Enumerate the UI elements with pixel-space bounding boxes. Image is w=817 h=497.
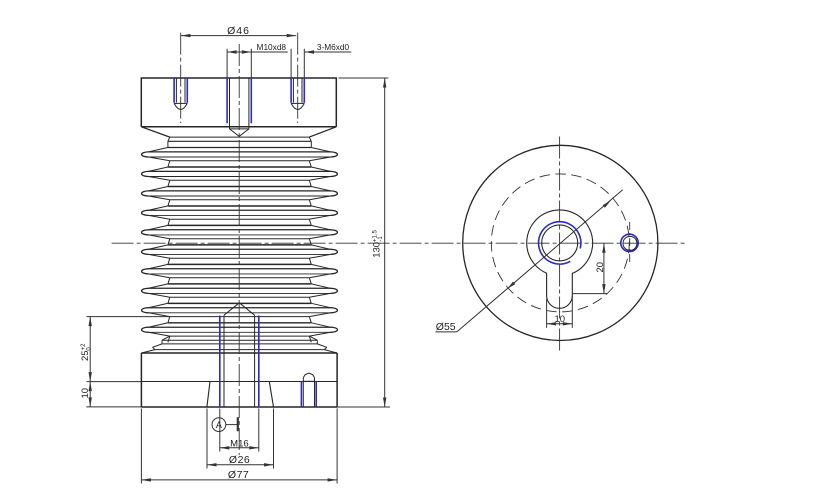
M16 inner circle [542,225,578,261]
insulator top cap outline [141,78,336,127]
svg-text:M16: M16 [230,438,248,449]
dimension M10 depth 8 [227,51,288,53]
shed fin 6 [149,245,168,249]
M16 thread arc blue [539,222,581,264]
M16 thread lines [219,316,221,408]
tapped hole 3-M6 right [290,78,292,103]
shed fin 10 [149,323,168,327]
extension line base bottom right [337,406,390,408]
shed fin 4 [149,206,168,210]
shed fin 3 [149,187,168,191]
dimension 10 slot [546,299,548,328]
tapped hole 3-M6 left [173,78,175,103]
keyhole boss outline [527,210,593,308]
svg-text:Ø77: Ø77 [228,469,249,481]
shed fin 8 [149,284,168,288]
side pin hole [300,381,302,407]
shed fin 5 [149,225,168,229]
Ø55 leader and text [457,190,623,332]
centerline small hole [629,222,631,263]
tapped hole M10 center [226,78,228,123]
svg-text:Ø26: Ø26 [229,454,250,466]
bottom ridge transition [162,336,170,340]
svg-text:Ø55: Ø55 [436,321,456,333]
base cylinder outline [141,352,337,354]
shed fin 2 [149,167,168,171]
outer circle Ø77 top view [463,145,658,340]
dimension Ø26 [206,409,208,469]
vertical centerline left view [238,44,240,455]
dimension Ø77 [140,409,142,484]
svg-text:20: 20 [595,262,606,273]
callout 3-M6 depth 10 [305,51,352,53]
svg-text:M10xd8: M10xd8 [257,42,287,52]
dimension 130 +1.5/-1 [338,77,388,79]
svg-text:10: 10 [555,314,566,325]
svg-text:3-M6xd0: 3-M6xd0 [317,42,350,52]
centerline right M6 hole [297,33,299,123]
dimension M16 [219,409,221,452]
base internal step line [141,381,337,383]
svg-text:10: 10 [80,388,91,399]
datum symbol A [212,418,226,432]
bottom boss outline [207,382,210,408]
shed fin 1 [149,148,168,152]
vertical centerline right view [559,137,561,353]
centerline left M6 hole [180,33,182,123]
svg-text:A: A [216,420,222,430]
dimension line Ø46 [181,35,296,37]
shed fin 9 [149,303,168,307]
cap to shed transition [141,127,170,137]
dimension 25 +2/0 [87,316,170,318]
dimension 10 left [87,381,142,383]
bolt circle Ø55 dashed [491,174,629,312]
svg-text:Ø46: Ø46 [227,25,250,37]
horizontal centerline both views [112,242,687,244]
M6 hole top view [621,234,638,251]
shed fin 7 [149,264,168,268]
dimension 20 [603,243,605,293]
